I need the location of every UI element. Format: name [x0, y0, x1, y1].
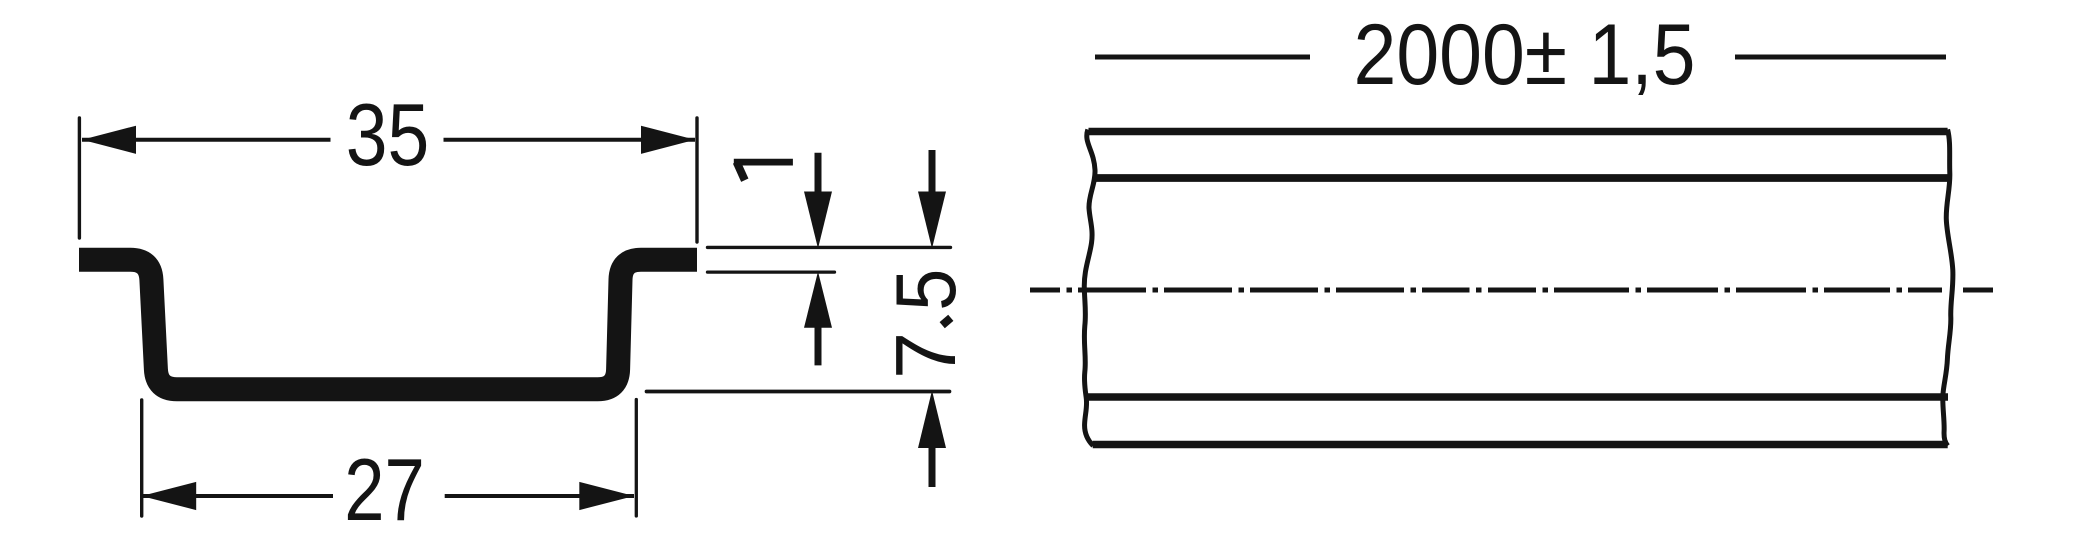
- stem of down arrow for 7,5 dim: [929, 150, 936, 196]
- dimension line 27 left segment: [143, 494, 334, 498]
- stem of down arrow for 1 dim: [815, 153, 822, 196]
- arrowhead left of 35 dim: [82, 126, 136, 154]
- svg-text:7: 7: [879, 332, 974, 379]
- right view: flanking line left of 2000 label: [1095, 55, 1310, 60]
- rail inner bottom line: [1086, 393, 1948, 401]
- stem of up arrow for 7,5 dim: [929, 445, 936, 487]
- label 7,5 (rotated) : comma: [942, 318, 951, 325]
- left break (wavy) line: [1084, 130, 1095, 446]
- arrowhead right of 27 dim: [579, 482, 634, 510]
- thin line lower reference (for 7,5 dim): [647, 390, 950, 394]
- extension line left of 27 dim: [140, 400, 143, 516]
- stem of up arrow for 1 dim: [815, 324, 822, 365]
- arrowhead right of 35 dim: [641, 126, 695, 154]
- right view: flanking line right of 2000 label: [1735, 55, 1946, 60]
- DIN rail hat profile cross-section: [79, 260, 697, 390]
- down arrowhead for 7,5 dim: [918, 192, 946, 249]
- center dash-dot line: [1030, 288, 1993, 293]
- thin line top surface extension (for 1 and 7,5 dims): [708, 246, 951, 249]
- rail bottom edge: [1093, 441, 1948, 449]
- svg-text:35: 35: [346, 85, 430, 184]
- extension line left of 35 dim: [78, 118, 81, 238]
- down arrowhead for 1 dim: [804, 192, 832, 249]
- up arrowhead for 1 dim: [804, 272, 832, 328]
- label 1 (rotated, drawn as path): [734, 162, 793, 180]
- svg-text:2000± 1,5: 2000± 1,5: [1354, 7, 1696, 103]
- up arrowhead for 7,5 dim: [918, 391, 946, 449]
- rail inner top line: [1093, 174, 1950, 182]
- dimension line 35 right segment: [444, 138, 696, 142]
- svg-text:5: 5: [879, 269, 974, 311]
- thin line bottom of flange extension (for 1 dim): [708, 270, 835, 273]
- right break (wavy) line: [1943, 130, 1953, 446]
- dimension line 27 right segment: [445, 494, 634, 498]
- extension line right of 35 dim: [695, 118, 698, 242]
- arrowhead left of 27 dim: [142, 482, 197, 510]
- dimension line 35 left segment: [82, 138, 331, 142]
- rail top edge: [1089, 128, 1948, 136]
- svg-text:27: 27: [344, 440, 425, 539]
- extension line right of 27 dim: [635, 400, 638, 517]
